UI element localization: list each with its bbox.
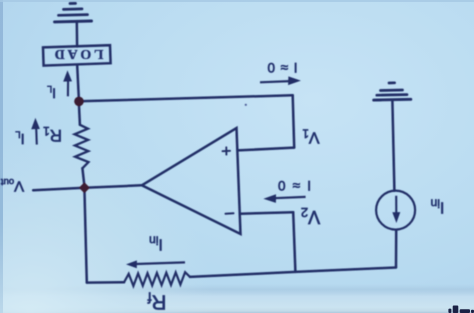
wire feedback right vertical: [293, 95, 295, 147]
arrow Iin (left, above Rf): [136, 262, 185, 264]
wire ground to LOAD: [76, 22, 79, 47]
wire current source to ground (top-right): [392, 101, 394, 191]
arrow I~0 bottom (left): [274, 197, 306, 198]
ground (top-left, inverted): [55, 3, 92, 22]
op-amp U1: [142, 128, 241, 234]
svg-text:I ≈ 0: I ≈ 0: [268, 60, 298, 75]
op-amp + pin: [223, 147, 231, 154]
arrow IL (up, near LOAD): [67, 80, 69, 97]
wire LOAD to node A: [77, 65, 79, 98]
arrow up (R1 IL label): [35, 128, 38, 145]
ground (top-right, inverted): [374, 83, 411, 100]
op-amp - pin: [226, 212, 234, 214]
load box LOAD: [43, 45, 111, 65]
svg-text:I ≈ 0: I ≈ 0: [278, 178, 311, 193]
node B (junction diamond): [79, 182, 90, 193]
svg-text:LOAD: LOAD: [52, 46, 104, 61]
wire node B down to bottom: [84, 188, 86, 283]
current source Iin (circle): [376, 191, 415, 230]
wire op-amp output to node B: [84, 185, 141, 188]
stray mark: [245, 104, 247, 106]
wire resistor Rf to bottom corner: [190, 268, 396, 277]
wire bottom left to resistor Rf: [87, 281, 124, 284]
arrow I~0 top (right): [260, 81, 290, 82]
wire op-amp - input to V2 corner: [240, 212, 293, 214]
node A (junction dot): [74, 97, 84, 107]
wire V2 vertical down: [293, 212, 295, 272]
wire node B to Vout: [33, 188, 84, 191]
wire to op-amp + input: [238, 148, 295, 151]
wire bottom corner up to current source: [395, 230, 398, 268]
resistor Rf: [124, 272, 190, 286]
wire resistor R1 to node B: [82, 168, 84, 184]
text fragment bottom-right corner: [448, 306, 474, 313]
wire node A to resistor R1: [79, 102, 80, 125]
arrow inside current source (down): [395, 196, 397, 215]
wire node A to feedback corner (top horizontal): [79, 95, 293, 101]
resistor R1: [75, 125, 89, 168]
